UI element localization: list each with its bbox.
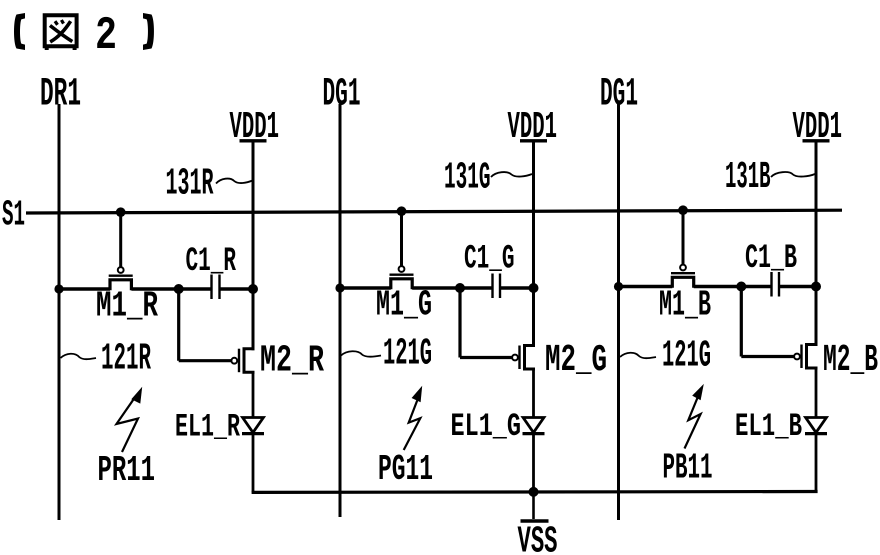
arrowhead PB11 xyxy=(692,384,704,400)
svg-text:M1_G: M1_G xyxy=(376,285,432,326)
wire storage node down (pixel G) xyxy=(458,288,461,358)
svg-text:M2_B: M2_B xyxy=(823,339,878,382)
transistor M1_B xyxy=(680,265,686,271)
svg-text:S1: S1 xyxy=(2,195,25,236)
wire VDD1 vertical down to M2 (pixel R) xyxy=(252,141,255,350)
wire M1_B drain to storage node xyxy=(694,285,742,288)
wire M2_R drain down to EL1_R xyxy=(252,372,255,417)
svg-text:M2_G: M2_G xyxy=(545,339,607,382)
junction dot C1_R / VDD1 (pixel R) xyxy=(248,284,258,294)
wire storage node to C1_R xyxy=(179,287,212,290)
wire M1_G gate vertical from S1 xyxy=(400,211,403,266)
wire M1_B gate vertical from S1 xyxy=(682,210,685,265)
figure heading bracket left xyxy=(14,13,25,50)
wire M1_G drain to storage node xyxy=(412,286,460,289)
wire M1_R drain to storage node xyxy=(131,287,178,290)
junction dot on S1 for M1_R gate xyxy=(116,207,126,217)
transistor M1_G xyxy=(399,266,405,272)
wire VDD1 vertical down to M2 (pixel B) xyxy=(815,141,818,346)
svg-text:2: 2 xyxy=(95,10,117,62)
wire storage node to C1_B xyxy=(741,285,771,288)
junction dot data line / M1_G source xyxy=(335,283,344,292)
diode EL1_R (OLED) xyxy=(243,418,264,433)
figure heading bracket right xyxy=(143,13,154,50)
wire VSS stub down xyxy=(532,492,535,519)
svg-text:C1_G: C1_G xyxy=(464,241,515,279)
leader squiggle for 131G xyxy=(491,172,532,177)
wire VSS rail horizontal xyxy=(252,490,818,494)
leader tilde for 121R xyxy=(61,354,97,359)
figure heading kanji zu box xyxy=(45,15,77,46)
svg-text:C1_R: C1_R xyxy=(186,243,237,281)
svg-text:EL1_B: EL1_B xyxy=(735,408,802,445)
wire data line DG1 vertical (pixel G) xyxy=(339,104,342,517)
wire M2_G drain down to EL1_G xyxy=(532,369,535,418)
svg-text:PG11: PG11 xyxy=(378,449,433,490)
junction dot C1_B / VDD1 (pixel B) xyxy=(811,282,821,292)
wire C1_B to VDD1 line xyxy=(779,285,816,288)
svg-text:C1_B: C1_B xyxy=(745,240,797,278)
wire C1_G to VDD1 line xyxy=(500,286,534,289)
wire data line DG1 vertical (pixel B) xyxy=(617,104,620,520)
svg-text:EL1_G: EL1_G xyxy=(451,408,522,445)
wire storage node to C1_G xyxy=(460,286,493,289)
junction dot on S1 for M1_G gate xyxy=(397,206,407,216)
transistor M2_R xyxy=(231,358,237,364)
svg-text:131R: 131R xyxy=(166,163,214,206)
power VSS terminal bar xyxy=(521,519,549,522)
wire EL1_G cathode down to VSS rail xyxy=(532,434,535,492)
arrow lightning pointer PG11 xyxy=(404,401,421,451)
svg-text:PR11: PR11 xyxy=(98,450,156,491)
wire storage node down (pixel R) xyxy=(177,289,180,361)
junction dot C1_G / VDD1 (pixel G) xyxy=(529,283,539,293)
power VDD1 terminal bar (pixel R) xyxy=(240,139,267,142)
junction dot storage node (pixel G) xyxy=(455,283,465,293)
wire EL1_R cathode down to VSS rail xyxy=(252,434,255,493)
svg-text:EL1_R: EL1_R xyxy=(175,409,241,446)
wire M1_R gate vertical from S1 xyxy=(119,212,122,267)
wire M1_R source segment xyxy=(59,287,110,290)
wire storage node down (pixel B) xyxy=(740,287,743,357)
leader squiggle for 131R xyxy=(216,179,253,184)
svg-text:PB11: PB11 xyxy=(663,448,713,489)
svg-text:121G: 121G xyxy=(662,335,711,378)
wire VDD1 vertical down to M2 (pixel G) xyxy=(532,141,535,347)
junction dot data line / M1_R source xyxy=(54,284,63,293)
capacitor C1_R xyxy=(210,275,212,300)
leader tilde for 121G xyxy=(620,353,656,358)
power VDD1 terminal bar (pixel G) xyxy=(520,139,547,142)
junction dot on S1 for M1_B gate xyxy=(678,205,688,215)
kanji zu inner strokes xyxy=(50,26,72,42)
power VDD1 terminal bar (pixel B) xyxy=(803,139,830,142)
wire S1 scan line horizontal xyxy=(26,210,842,213)
svg-text:M2_R: M2_R xyxy=(260,340,324,383)
wire M1_B source segment xyxy=(619,285,673,288)
wire M2_B drain down to EL1_B xyxy=(815,368,818,418)
leader squiggle for 131B xyxy=(771,172,815,177)
svg-text:131G: 131G xyxy=(444,157,491,200)
kanji zu legs xyxy=(45,46,49,50)
diode EL1_G (OLED) xyxy=(523,418,544,433)
leader tilde for 121G xyxy=(341,351,381,356)
wire to M2_R gate xyxy=(179,359,232,362)
transistor M1_R xyxy=(118,267,124,273)
svg-text:121R: 121R xyxy=(101,338,151,381)
junction dot storage node (pixel R) xyxy=(174,284,184,294)
capacitor C1_G xyxy=(491,274,493,299)
svg-text:M1_B: M1_B xyxy=(659,285,711,326)
svg-text:131B: 131B xyxy=(725,156,771,199)
wire M1_G source segment xyxy=(340,286,391,289)
arrow lightning pointer PR11 xyxy=(117,397,139,453)
wire data line DR1 vertical (pixel R) xyxy=(58,104,61,520)
wire EL1_B cathode down to VSS rail xyxy=(815,434,818,492)
transistor M2_B xyxy=(794,354,800,360)
arrow lightning pointer PB11 xyxy=(685,397,701,449)
wire to M2_B gate xyxy=(741,355,794,358)
arrowhead PR11 xyxy=(131,387,142,404)
junction dot VSS rail / EL1_G xyxy=(529,487,539,497)
junction dot storage node (pixel B) xyxy=(736,282,746,292)
arrowhead PG11 xyxy=(412,386,423,402)
junction dot data line / M1_B source xyxy=(614,282,623,291)
svg-text:M1_R: M1_R xyxy=(96,286,158,327)
svg-text:VSS: VSS xyxy=(518,521,558,555)
diode EL1_B (OLED) xyxy=(806,418,827,433)
capacitor C1_B xyxy=(770,272,772,297)
wire C1_R to VDD1 line xyxy=(220,287,254,290)
svg-text:121G: 121G xyxy=(383,333,432,376)
wire to M2_G gate xyxy=(460,356,512,359)
transistor M2_G xyxy=(512,355,518,361)
